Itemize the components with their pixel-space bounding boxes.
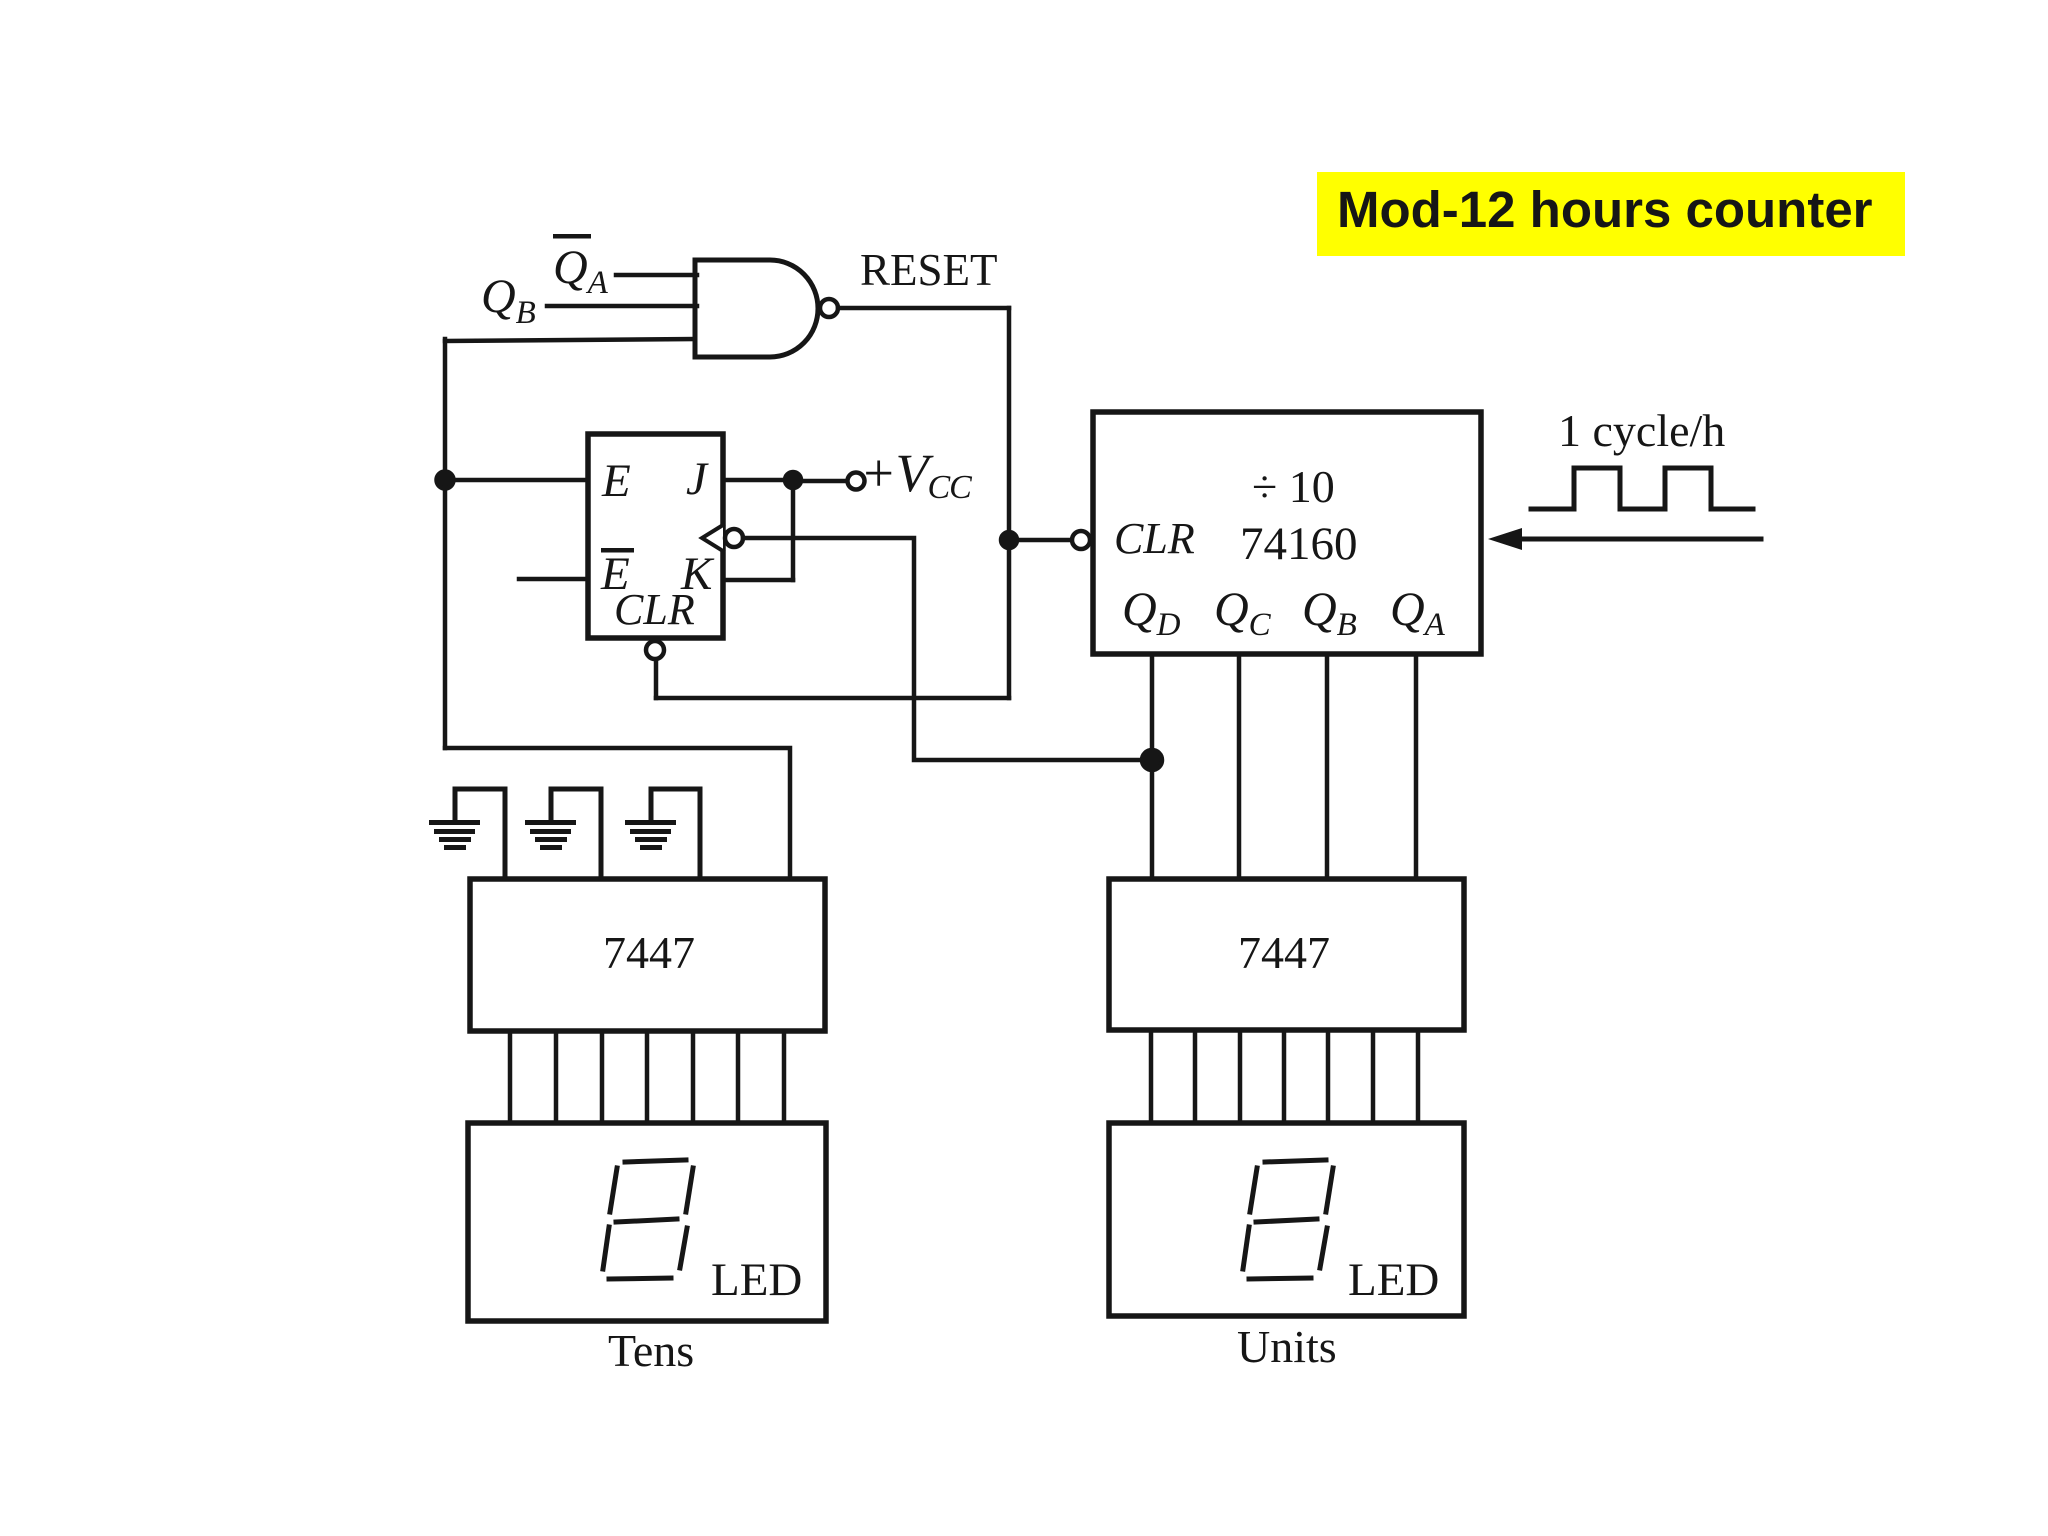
wire: Q_D pin down (1150, 654, 1155, 879)
units seven-segment digit (1243, 1160, 1333, 1279)
clock input arrow (1500, 537, 1761, 542)
FF CLR bubble (646, 641, 664, 659)
wire: Q_B input to NAND (547, 304, 697, 309)
svg-text:LED: LED (711, 1254, 802, 1306)
svg-text:E: E (601, 455, 631, 507)
LED display (units) box (1109, 1123, 1464, 1316)
node: junction at E input (437, 472, 454, 489)
units segment wires a-g (1149, 1030, 1154, 1123)
wire: FF clock to 74160 Q_D net (743, 538, 1152, 760)
wire: Q_B pin down (1325, 654, 1330, 879)
wire: J output (723, 478, 793, 483)
svg-text:74160: 74160 (1240, 518, 1358, 570)
decoder 7447 (tens) box (470, 879, 825, 1031)
tens seven-segment digit (603, 1160, 693, 1279)
flip-flop U2 box (588, 434, 723, 638)
svg-text:Tens: Tens (608, 1325, 694, 1376)
nand gate U1 body (695, 260, 818, 357)
wire: E input to FF (445, 478, 588, 483)
tens segment wires a-g (508, 1031, 513, 1123)
wire: Q_A pin down (1414, 654, 1419, 879)
+Vcc open terminal (848, 473, 865, 490)
wire: E-bar stub (519, 577, 588, 582)
svg-text:÷ 10: ÷ 10 (1252, 461, 1335, 512)
ground 3 (625, 789, 700, 879)
wire: RESET bottom horizontal to FF CLR (656, 696, 1009, 701)
74160 CLR input bubble (1072, 531, 1090, 549)
ground 1 (429, 789, 505, 879)
decoder 7447 (units) box (1109, 879, 1464, 1030)
svg-text:CLR: CLR (1114, 514, 1195, 563)
wire: NAND output to RESET corner (838, 306, 1009, 311)
wire: K output (723, 578, 793, 583)
wire: third NAND input from left vertical (445, 339, 695, 341)
svg-text:1 cycle/h: 1 cycle/h (1558, 405, 1725, 456)
wire: to +Vcc terminal (793, 479, 847, 484)
wire: lower horizontal from left vertical to tens 7447 (445, 748, 790, 879)
wire: left vertical (QB net) (443, 339, 448, 748)
FF clock bubble (725, 529, 743, 547)
clock waveform (1531, 468, 1753, 509)
svg-text:Mod-12 hours counter: Mod-12 hours counter (1337, 181, 1873, 238)
wire: RESET vertical down (1007, 308, 1012, 698)
node: junction on Q_D line (1142, 750, 1162, 770)
nand gate U1 output bubble (820, 299, 838, 317)
svg-text:Units: Units (1237, 1321, 1337, 1372)
FF label E-bar (600, 548, 634, 600)
wire: stem up to FF CLR bubble (654, 661, 659, 698)
title: Mod-12 hours counter (1317, 172, 1905, 256)
node: junction RESET/74160-CLR (1001, 532, 1017, 548)
wire: Q_C pin down (1237, 654, 1242, 879)
svg-text:RESET: RESET (860, 245, 998, 295)
svg-text:J: J (686, 453, 709, 505)
node: junction J/+Vcc (785, 472, 801, 488)
label Q_A-bar (NAND input 1) (553, 234, 609, 301)
wire: J-K vertical tie (791, 480, 796, 580)
FF clock triangle (702, 525, 723, 551)
svg-text:7447: 7447 (1238, 927, 1330, 978)
counter 74160 box (1093, 412, 1481, 654)
svg-text:CLR: CLR (614, 585, 695, 634)
LED display (tens) box (468, 1123, 826, 1321)
ground 2 (525, 789, 601, 879)
wire: Q_A-bar input to NAND (616, 273, 697, 278)
svg-text:LED: LED (1348, 1254, 1439, 1306)
svg-text:7447: 7447 (603, 927, 695, 978)
wire: junction to 74160 CLR bubble (1009, 538, 1071, 543)
